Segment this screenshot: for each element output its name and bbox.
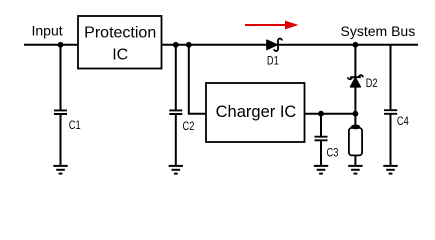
svg-text:System Bus: System Bus (341, 23, 416, 39)
svg-text:Charger IC: Charger IC (216, 103, 297, 121)
svg-text:C1: C1 (69, 119, 81, 133)
svg-text:D2: D2 (366, 77, 378, 91)
svg-text:D1: D1 (267, 54, 279, 68)
svg-text:Input: Input (32, 23, 63, 39)
svg-text:C3: C3 (327, 146, 339, 160)
svg-text:IC: IC (112, 47, 128, 64)
svg-text:C4: C4 (397, 115, 409, 129)
svg-text:Protection: Protection (84, 25, 156, 42)
svg-text:C2: C2 (183, 120, 195, 134)
